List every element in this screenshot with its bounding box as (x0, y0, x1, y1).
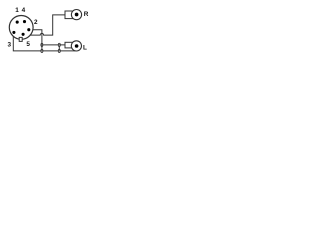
svg-text:L: L (83, 45, 87, 52)
svg-text:R: R (84, 11, 89, 18)
svg-text:5: 5 (26, 41, 30, 48)
svg-text:1: 1 (15, 7, 19, 14)
svg-text:4: 4 (22, 7, 26, 14)
svg-text:3: 3 (8, 41, 12, 48)
svg-text:2: 2 (34, 19, 38, 26)
